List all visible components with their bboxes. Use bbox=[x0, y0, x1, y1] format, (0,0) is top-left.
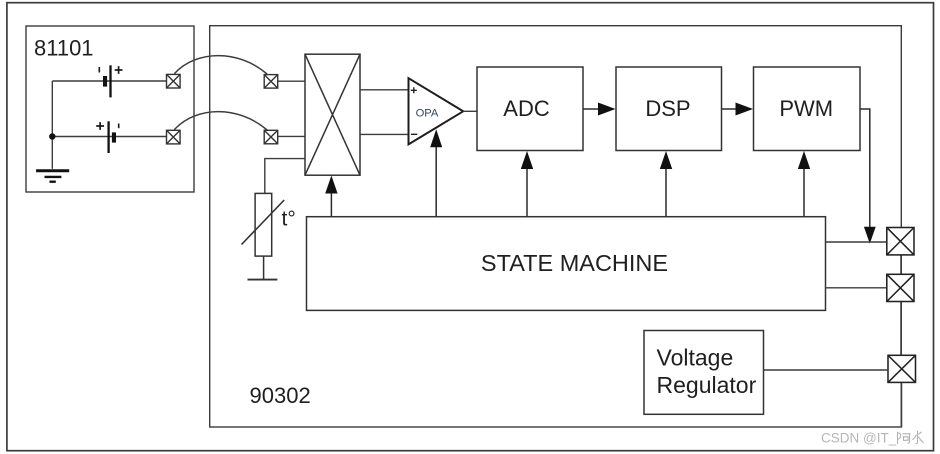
thermistor RT1 wire bbox=[265, 159, 305, 194]
svg-text:Voltage: Voltage bbox=[657, 345, 734, 371]
pad P1 bbox=[167, 74, 181, 88]
block ADC bbox=[477, 67, 583, 151]
arrow SM to DSP bbox=[660, 151, 672, 217]
block Voltage Regulator bbox=[644, 331, 764, 415]
thermistor RT1 bbox=[242, 193, 285, 279]
wire crossover curve bottom bbox=[174, 112, 267, 130]
block STATE MACHINE bbox=[307, 217, 826, 311]
wire regulator to pad E3 bbox=[764, 369, 889, 371]
wire P4 to mux bbox=[278, 135, 305, 137]
block DSP bbox=[616, 67, 722, 151]
op-amp U2 bbox=[409, 78, 464, 144]
wire DSP to PWM bbox=[722, 103, 754, 116]
wire ADC to DSP bbox=[583, 103, 616, 116]
wire P3 to mux bbox=[278, 80, 305, 82]
box 81101 bbox=[26, 26, 194, 192]
pad E3 bbox=[888, 355, 916, 382]
svg-text:90302: 90302 bbox=[250, 383, 311, 408]
battery B1 bbox=[99, 65, 122, 97]
arrow SM to mux bbox=[325, 176, 337, 217]
svg-text:t°: t° bbox=[282, 208, 296, 231]
wire crossover curve top bbox=[174, 56, 267, 74]
wire top battery row bbox=[52, 80, 166, 82]
pad P3 bbox=[264, 75, 278, 89]
svg-text:Regulator: Regulator bbox=[657, 372, 757, 398]
wire opamp output bbox=[463, 110, 477, 112]
svg-text:81101: 81101 bbox=[34, 36, 94, 61]
svg-text:STATE MACHINE: STATE MACHINE bbox=[481, 250, 668, 276]
battery B2 bbox=[96, 121, 119, 153]
wire SM to pad E2 bbox=[826, 287, 887, 289]
pad P2 bbox=[167, 130, 181, 144]
watermark CSDN bbox=[821, 431, 924, 446]
svg-text:OPA: OPA bbox=[416, 107, 439, 119]
pad E2 bbox=[887, 274, 914, 301]
mux U1 bbox=[305, 54, 360, 175]
pad P4 bbox=[264, 130, 278, 144]
svg-text:CSDN @IT_: CSDN @IT_ bbox=[821, 431, 897, 446]
pad E1 bbox=[887, 228, 914, 255]
wire left vertical bbox=[51, 81, 53, 169]
wire pad E1 to E2 to E3 bbox=[900, 255, 903, 427]
box 90302 bbox=[210, 26, 902, 427]
arrow SM to ADC bbox=[521, 151, 533, 217]
block PWM bbox=[754, 67, 861, 151]
node junction dot bbox=[49, 133, 55, 139]
wire mux to opamp minus bbox=[360, 133, 409, 135]
svg-text:PWM: PWM bbox=[779, 96, 833, 121]
svg-text:ADC: ADC bbox=[503, 96, 550, 121]
arrow SM to PWM bbox=[798, 151, 810, 217]
svg-text:DSP: DSP bbox=[645, 96, 690, 121]
wire PWM down to pad row bbox=[860, 109, 876, 244]
arrow SM to opamp bbox=[430, 129, 442, 216]
wire mux to opamp plus bbox=[360, 89, 409, 91]
ground bbox=[36, 171, 69, 182]
wire SM to pad E1 bbox=[826, 241, 887, 243]
wire bottom battery row bbox=[52, 136, 166, 138]
